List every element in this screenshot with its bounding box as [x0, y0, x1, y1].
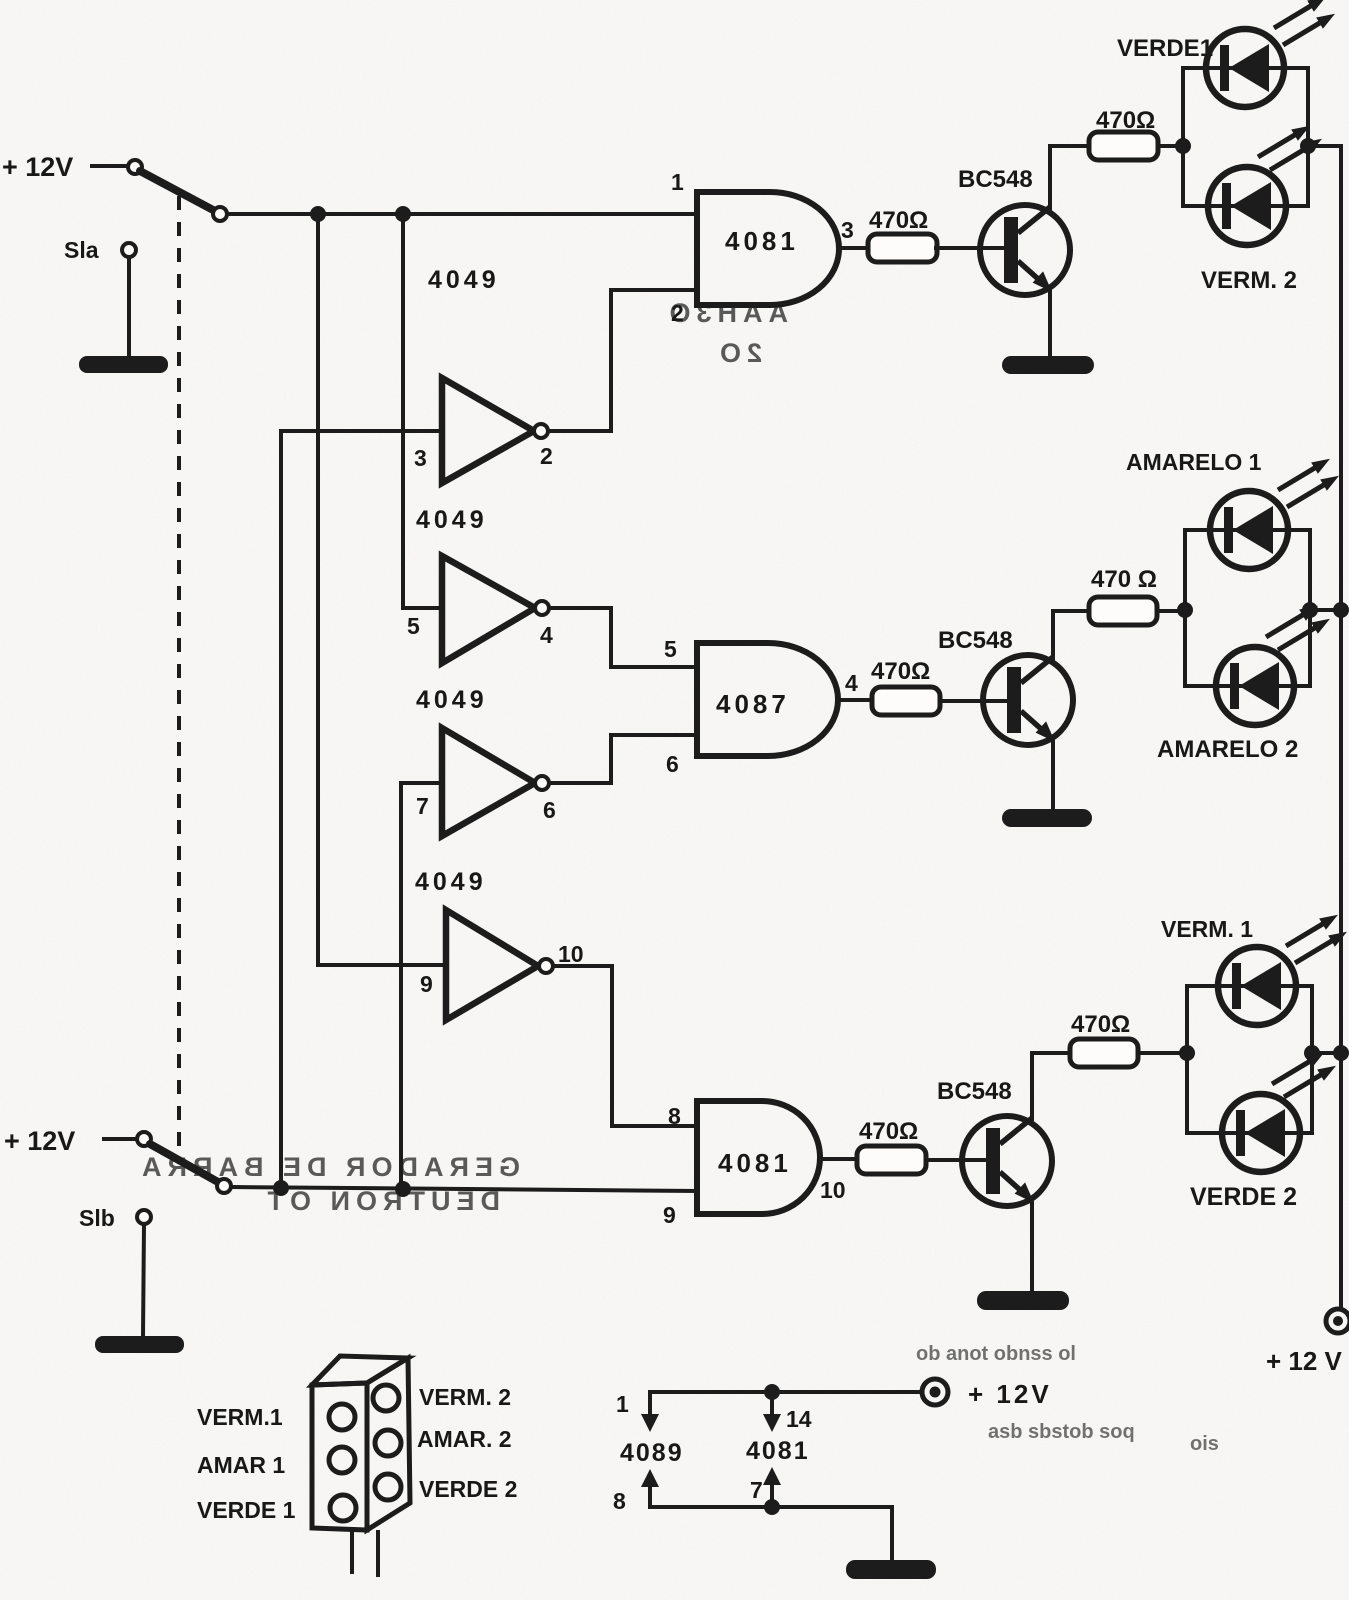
- svg-text:VERDE 2: VERDE 2: [1190, 1183, 1297, 1211]
- wire: vertical C from bottom rail up to inverter U1a input: [281, 431, 442, 1188]
- node: LED group1 right rail junction: [1300, 138, 1316, 154]
- wire: top rail A from S1a to AND gate pin 1: [227, 212, 697, 216]
- wire R6 to LED group 3: [1138, 1051, 1187, 1055]
- svg-text:3: 3: [841, 217, 854, 243]
- +12V terminal (right): [1326, 1309, 1349, 1333]
- light arrows D1: [1274, 0, 1326, 28]
- connector hole VERM.2: [373, 1385, 399, 1411]
- switch S1b throw contact: [217, 1179, 231, 1193]
- svg-text:+ 12 V: + 12 V: [1266, 1346, 1343, 1376]
- node: chip power junction top: [764, 1384, 780, 1400]
- chip power: +12V feed wire: [650, 1390, 922, 1394]
- svg-text:7: 7: [750, 1477, 763, 1503]
- light arrows D4: [1266, 606, 1318, 637]
- wire: vertical A2 from top rail down to inverter U1b input: [403, 214, 442, 608]
- svg-text:4081: 4081: [746, 1437, 810, 1465]
- svg-text:BC548: BC548: [937, 1078, 1012, 1105]
- svg-text:4089: 4089: [620, 1439, 684, 1467]
- light arrows D5: [1286, 915, 1338, 946]
- light arrows D3: [1278, 459, 1330, 490]
- LED D3 AMARELO 1: [1210, 491, 1288, 569]
- wire Q2 emitter to ground: [1051, 742, 1055, 810]
- inverter U1b (4049): [442, 556, 535, 663]
- wire R1 to Q1 base: [936, 246, 1005, 250]
- inverter U1d (4049): [446, 910, 538, 1020]
- inverter U1c (4049): [442, 728, 535, 836]
- resistor R2 470ohm: [1089, 132, 1158, 160]
- svg-text:4: 4: [540, 622, 553, 648]
- ground (Q1 emitter): [1002, 356, 1094, 374]
- svg-text:ois: ois: [1190, 1433, 1219, 1455]
- wire: LED group3 left rail: [1185, 986, 1189, 1133]
- wire: LED group1 right rail: [1306, 68, 1310, 206]
- wire: LED group2 right rail: [1308, 530, 1312, 686]
- svg-text:3: 3: [414, 445, 427, 471]
- wire U2b output to R3: [838, 698, 872, 702]
- wire Q1 emitter to ground: [1048, 292, 1052, 357]
- node: chip power junction bottom: [764, 1499, 780, 1515]
- wire: bottom rail B from S1b to AND gate pin 9: [231, 1187, 697, 1191]
- svg-text:6: 6: [543, 797, 556, 823]
- wire: LED D3 branch (AMARELO 1): [1185, 528, 1310, 532]
- transistor Q2 BC548: [983, 655, 1073, 745]
- node: junction top rail / vertical A1: [310, 206, 326, 222]
- S1a lower contact: [122, 243, 136, 257]
- wire Q1 collector to R2: [1050, 146, 1089, 208]
- wire Q2 collector to R4: [1053, 611, 1089, 658]
- bleed-through artifact text (bottom right): [916, 1343, 1219, 1455]
- resistor R6 470ohm: [1070, 1039, 1138, 1067]
- wire: group1 to +12V rail: [1308, 144, 1341, 148]
- connector block right face: [367, 1358, 410, 1530]
- svg-text:9: 9: [663, 1202, 676, 1228]
- svg-text:7: 7: [416, 793, 429, 819]
- wire R3 to Q2 base: [940, 699, 1007, 703]
- LED D1 VERDE1: [1206, 29, 1284, 107]
- connector leg 2: [376, 1532, 380, 1575]
- LED D2 VERM.2: [1208, 167, 1286, 245]
- svg-text:470Ω: 470Ω: [1071, 1011, 1130, 1038]
- arrow: pin 14 down: [770, 1392, 774, 1417]
- arrow: pin 1 down: [648, 1392, 652, 1417]
- connector leg 1: [350, 1530, 354, 1572]
- svg-text:2: 2: [671, 300, 684, 326]
- connector block front face: [312, 1383, 367, 1530]
- wire: group3 to +12V rail: [1312, 1051, 1341, 1055]
- wire: group2 to +12V rail: [1310, 608, 1341, 612]
- +12V terminal (chip power): [922, 1379, 948, 1405]
- wire R5 to Q3 base: [926, 1158, 985, 1162]
- inverter U1a output bubble: [534, 424, 548, 438]
- svg-text:4049: 4049: [416, 506, 488, 534]
- LED D5 VERM. 1: [1218, 947, 1296, 1025]
- svg-text:4081: 4081: [725, 226, 799, 256]
- svg-text:10: 10: [558, 941, 584, 967]
- LED D6 VERDE 2: [1222, 1094, 1300, 1172]
- wire Q3 collector to R6: [1032, 1053, 1070, 1119]
- node: junction bottom rail / vertical C: [273, 1180, 289, 1196]
- svg-text:470Ω: 470Ω: [859, 1118, 918, 1145]
- wire: LED D6 branch (VERDE 2): [1187, 1131, 1312, 1135]
- svg-text:6: 6: [666, 751, 679, 777]
- wire: vertical A1 from top rail down to inverter U1d input: [318, 214, 446, 965]
- svg-text:AMAR. 2: AMAR. 2: [417, 1426, 512, 1452]
- svg-text:BC548: BC548: [938, 627, 1013, 654]
- node: R2 / LED group 1 left rail: [1175, 138, 1191, 154]
- switch S1a throw contact: [213, 207, 227, 221]
- svg-text:5: 5: [664, 636, 677, 662]
- ground (Q3 emitter): [977, 1291, 1069, 1310]
- inverter U1a (4049): [442, 378, 534, 483]
- svg-text:+ 12V: + 12V: [4, 1126, 75, 1156]
- inverter U1c output bubble: [535, 776, 549, 790]
- svg-text:10: 10: [820, 1177, 846, 1203]
- svg-text:+ 12V: + 12V: [2, 152, 73, 182]
- inverter U1b output bubble: [535, 601, 549, 615]
- node: junction top rail / vertical A2: [395, 206, 411, 222]
- ground (S1a): [79, 356, 168, 373]
- wire: LED group1 left rail: [1181, 68, 1185, 206]
- transistor Q3 BC548: [962, 1116, 1052, 1206]
- svg-text:+ 12V: + 12V: [968, 1379, 1052, 1409]
- svg-text:AMARELO 2: AMARELO 2: [1157, 736, 1298, 763]
- node: R6 / LED group 3 left rail: [1179, 1045, 1195, 1061]
- node: junction bottom rail / vertical B2: [395, 1181, 411, 1197]
- svg-text:AMAR 1: AMAR 1: [197, 1452, 285, 1478]
- svg-text:1: 1: [671, 169, 684, 195]
- transistor Q1 BC548: [980, 205, 1070, 295]
- svg-text:AMARELO 1: AMARELO 1: [1126, 449, 1262, 475]
- mechanical link dashed line S1a-S1b: [177, 196, 181, 1160]
- wire R2 to LED group 1: [1158, 144, 1183, 148]
- ground (chip power): [846, 1560, 936, 1579]
- arrow: pin 8 up: [648, 1484, 652, 1507]
- svg-text:VERDE 1: VERDE 1: [197, 1497, 296, 1523]
- node: R4 / LED group 2 left rail: [1177, 602, 1193, 618]
- svg-text:4049: 4049: [428, 266, 500, 294]
- node: LED group2 right rail junction: [1302, 602, 1318, 618]
- switch S1a pole contact: [128, 160, 142, 174]
- svg-text:asb sbstob soq: asb sbstob soq: [988, 1421, 1135, 1443]
- connector hole VERDE2: [375, 1474, 401, 1500]
- svg-text:VERDE 2: VERDE 2: [419, 1476, 517, 1502]
- svg-text:4049: 4049: [415, 868, 487, 896]
- svg-text:VERM. 2: VERM. 2: [1201, 267, 1297, 294]
- node: +12V rail at group2: [1333, 602, 1349, 618]
- svg-text:9: 9: [420, 971, 433, 997]
- resistor R4 470ohm: [1089, 597, 1157, 625]
- LED D4 AMARELO 2: [1216, 647, 1294, 725]
- wire from +12V to switch S1a pole: [92, 164, 127, 168]
- connector hole AMAR 1: [329, 1447, 355, 1473]
- inverter U1d output bubble: [539, 959, 553, 973]
- bleed-through artifact text: [136, 298, 788, 1216]
- node: LED group3 right rail junction: [1304, 1045, 1320, 1061]
- wire: LED group2 left rail: [1183, 530, 1187, 686]
- svg-text:14: 14: [786, 1406, 812, 1432]
- light arrows D6: [1272, 1053, 1324, 1084]
- wire: vertical B2 from bottom rail up to inverter U1c input: [401, 783, 442, 1188]
- S1b lower contact: [137, 1210, 151, 1224]
- svg-text:470 Ω: 470 Ω: [1091, 566, 1157, 593]
- wire S1a contact to ground: [127, 257, 131, 358]
- svg-text:4: 4: [845, 670, 858, 696]
- node: +12V rail at group3: [1333, 1045, 1349, 1061]
- svg-text:4049: 4049: [416, 686, 488, 714]
- wire: LED D4 branch (AMARELO 2): [1185, 684, 1310, 688]
- wire: +12V right rail: [1339, 146, 1343, 1308]
- wire U1d output to AND U2c pin 8: [553, 966, 697, 1126]
- svg-text:4087: 4087: [716, 689, 790, 719]
- resistor R5 470ohm: [857, 1146, 926, 1174]
- switch S1b lever: [150, 1144, 218, 1182]
- AND gate U2b (4081 middle): [697, 643, 838, 756]
- wire: LED D5 branch (VERM. 1): [1187, 984, 1312, 988]
- switch S1a lever: [140, 171, 215, 211]
- svg-text:VERM. 2: VERM. 2: [419, 1384, 511, 1410]
- wire U1a output to AND U2a pin 2: [548, 290, 697, 431]
- wire U2c output to R5: [820, 1157, 857, 1161]
- svg-text:5: 5: [407, 613, 420, 639]
- connector block top face: [312, 1356, 408, 1385]
- svg-text:Slb: Slb: [79, 1205, 115, 1231]
- svg-text:Sla: Sla: [64, 237, 99, 263]
- svg-text:8: 8: [613, 1488, 626, 1514]
- chip power: ground wire: [650, 1507, 892, 1561]
- wire: LED group3 right rail: [1310, 986, 1314, 1133]
- wire Q3 emitter to ground: [1030, 1203, 1034, 1292]
- svg-text:VERM. 1: VERM. 1: [1161, 916, 1253, 942]
- wire: LED D2 branch (VERM.2): [1183, 204, 1308, 208]
- svg-text:VERM.1: VERM.1: [197, 1404, 283, 1430]
- svg-text:4081: 4081: [718, 1148, 792, 1178]
- svg-text:1: 1: [616, 1391, 629, 1417]
- svg-text:2O: 2O: [714, 338, 762, 368]
- arrow: pin 7 up: [770, 1482, 774, 1507]
- wire: LED D1 branch (VERDE1): [1183, 66, 1308, 70]
- ground (S1b): [95, 1336, 184, 1353]
- wire U1c output to AND U2b pin 6: [549, 735, 697, 783]
- resistor R1 470ohm: [868, 234, 937, 262]
- svg-text:470Ω: 470Ω: [869, 207, 928, 234]
- resistor R3 470ohm: [872, 687, 940, 715]
- svg-text:2: 2: [540, 443, 553, 469]
- connector hole AMAR.2: [375, 1430, 401, 1456]
- svg-text:VERDE1: VERDE1: [1117, 35, 1213, 62]
- svg-text:8: 8: [668, 1103, 681, 1129]
- ground (Q2 emitter): [1002, 809, 1092, 827]
- wire U2a output to R1: [839, 246, 869, 250]
- svg-text:BC548: BC548: [958, 166, 1033, 193]
- switch S1b pole contact: [137, 1132, 151, 1146]
- wire R4 to LED group 2: [1157, 609, 1185, 613]
- connector hole VERDE 1: [330, 1495, 356, 1521]
- wire from +12V to switch S1b pole: [104, 1137, 137, 1141]
- svg-text:ob anot obnss ol: ob anot obnss ol: [916, 1343, 1076, 1365]
- AND gate U2c (4081 bottom): [697, 1101, 820, 1214]
- AND gate U2a (4081 top): [697, 192, 839, 305]
- wire S1b contact to ground: [143, 1224, 144, 1337]
- connector hole VERM.1: [329, 1404, 355, 1430]
- wire U1b output to AND U2b pin 5: [549, 608, 697, 667]
- light arrows D2: [1258, 126, 1310, 157]
- svg-text:470Ω: 470Ω: [871, 658, 930, 685]
